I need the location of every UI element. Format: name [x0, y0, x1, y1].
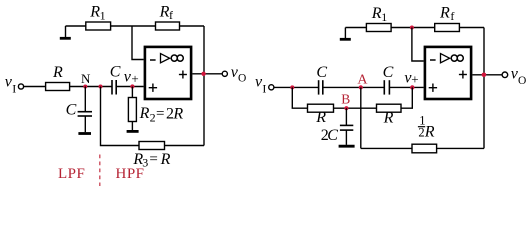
resistor R2	[128, 87, 183, 131]
capacitor C (shunt, left)	[66, 87, 92, 133]
svg-text:HPF: HPF	[116, 166, 145, 182]
svg-text:R: R	[371, 5, 382, 22]
resistor R1 (right)	[366, 5, 391, 31]
wire	[111, 25, 156, 27]
svg-text:R: R	[160, 151, 171, 168]
resistor R (B row left)	[308, 104, 334, 126]
svg-text:C: C	[66, 102, 77, 119]
wire	[334, 107, 377, 109]
node v+ (left)	[124, 68, 139, 88]
svg-text:R: R	[315, 109, 326, 126]
wire	[70, 86, 112, 88]
wire (op-amp output, left)	[192, 73, 222, 75]
wire	[437, 147, 484, 149]
svg-text:C: C	[383, 64, 394, 81]
wire	[165, 145, 205, 147]
svg-text:R: R	[424, 124, 435, 141]
wire	[345, 27, 366, 29]
resistor half-R	[412, 114, 437, 153]
svg-text:R: R	[439, 4, 450, 21]
wire (op-amp output, right)	[472, 74, 502, 76]
svg-text:=: =	[149, 151, 157, 167]
output terminal vO (right)	[502, 65, 526, 87]
node (right input tap)	[290, 85, 294, 89]
svg-text:R: R	[52, 64, 63, 81]
svg-text:+: +	[131, 71, 138, 86]
svg-text:I: I	[12, 82, 16, 96]
node (right output)	[482, 73, 487, 78]
svg-text:R: R	[383, 109, 394, 126]
capacitor 2C	[321, 108, 354, 145]
ground (right circuit, R1 left end)	[340, 28, 351, 40]
resistor R (left input)	[46, 64, 70, 90]
capacitor C (first, right)	[316, 64, 327, 95]
svg-text:f: f	[169, 8, 173, 22]
svg-text:=: =	[156, 106, 164, 122]
svg-text:LPF: LPF	[58, 166, 85, 182]
svg-text:1: 1	[381, 10, 387, 24]
svg-text:R: R	[172, 105, 183, 122]
resistor R1 (left)	[86, 4, 111, 30]
node (feedback tap, left)	[99, 85, 103, 89]
output terminal vO (left)	[222, 64, 246, 84]
svg-text:2: 2	[418, 125, 424, 139]
wire (v- feedback, left)	[132, 26, 144, 60]
svg-text:f: f	[450, 9, 454, 23]
svg-text:I: I	[262, 82, 266, 96]
node v+ (right)	[404, 69, 418, 89]
svg-text:A: A	[357, 72, 368, 87]
svg-text:2: 2	[150, 111, 156, 125]
wire	[180, 25, 205, 27]
svg-text:R: R	[89, 4, 100, 21]
resistor Rf (left)	[156, 3, 180, 30]
svg-text:R: R	[139, 105, 150, 122]
wire (v- feedback, right)	[412, 28, 424, 62]
resistor Rf (right)	[435, 4, 460, 31]
wire	[401, 87, 412, 108]
svg-text:C: C	[327, 127, 338, 144]
input terminal vI (right)	[255, 73, 274, 95]
node (left output)	[201, 72, 205, 76]
node N	[81, 71, 91, 89]
resistor R3	[132, 142, 170, 170]
node A	[357, 72, 368, 89]
ground (shunt C)	[78, 132, 91, 135]
ground (2C)	[339, 145, 355, 148]
svg-text:C: C	[110, 64, 121, 81]
svg-text:O: O	[518, 75, 526, 87]
capacitor C (series, left)	[110, 64, 121, 95]
ground (R2)	[127, 130, 139, 133]
svg-text:1: 1	[100, 8, 106, 22]
wire	[323, 86, 385, 88]
svg-text:+: +	[411, 72, 418, 87]
wire (left output rail)	[203, 26, 205, 146]
wire (bottom feedback, left)	[101, 87, 140, 146]
input terminal vI (left)	[5, 73, 24, 95]
ground (left circuit, R1 left end)	[60, 26, 71, 38]
node (R1-Rf junction, right)	[410, 26, 414, 30]
capacitor C (second, right)	[383, 64, 394, 95]
wire (A to bottom row)	[360, 87, 362, 148]
wire	[389, 86, 423, 88]
wire	[24, 86, 46, 88]
svg-text:N: N	[81, 71, 91, 86]
svg-text:O: O	[238, 73, 246, 85]
wire	[66, 25, 86, 27]
op-amp U2 (right)	[425, 47, 471, 99]
wire	[391, 27, 435, 29]
divider (red dashed)	[99, 155, 101, 187]
wire (right output rail)	[483, 28, 485, 149]
op-amp U1 (left)	[145, 47, 191, 99]
wire (to B row)	[292, 87, 307, 108]
wire	[116, 86, 143, 88]
wire (bottom row)	[361, 147, 412, 149]
svg-text:R: R	[159, 3, 170, 20]
wire	[274, 86, 319, 88]
node B	[341, 91, 350, 110]
svg-text:C: C	[316, 64, 327, 81]
resistor R (B row right)	[377, 104, 402, 126]
wire	[459, 27, 484, 29]
svg-text:B: B	[341, 91, 350, 106]
